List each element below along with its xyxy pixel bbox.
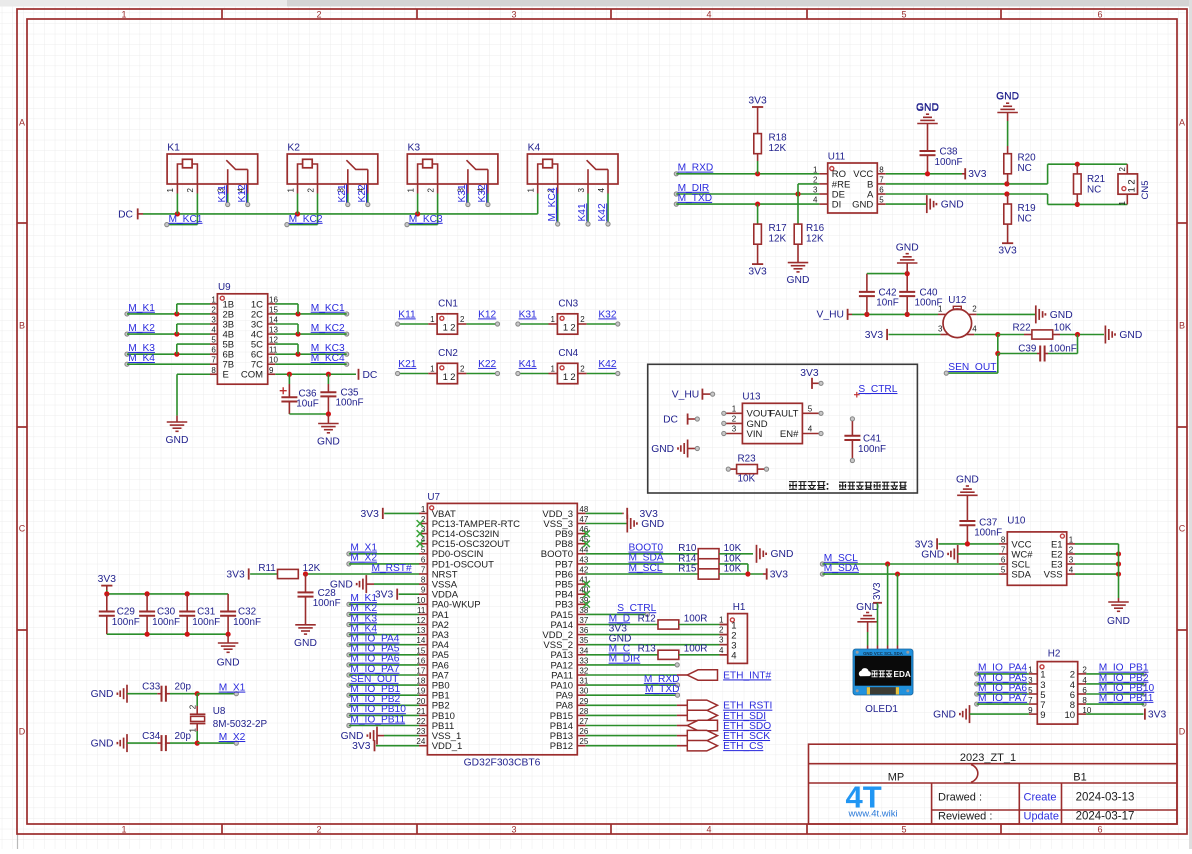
svg-text:GND: GND bbox=[852, 200, 873, 211]
wire net M_K4 to U7 bbox=[347, 623, 419, 636]
svg-text:2: 2 bbox=[426, 188, 435, 193]
svg-text:2: 2 bbox=[189, 704, 198, 709]
wire net K42 bbox=[587, 359, 620, 376]
svg-text:8: 8 bbox=[421, 576, 426, 585]
svg-text:4: 4 bbox=[706, 825, 711, 835]
svg-text:12K: 12K bbox=[769, 143, 787, 154]
svg-text:3V3: 3V3 bbox=[872, 582, 883, 600]
wire net BOOT0 / resistor R10 10K bbox=[586, 543, 794, 563]
wire net M_SDA / resistor R14 10K bbox=[586, 553, 748, 574]
svg-text:20: 20 bbox=[416, 697, 425, 706]
svg-text:CN3: CN3 bbox=[558, 299, 578, 310]
svg-text:1: 1 bbox=[121, 825, 126, 835]
capacitor C29 100nF bbox=[99, 594, 140, 634]
svg-text:K12: K12 bbox=[478, 309, 496, 320]
resistor R23 10K bbox=[726, 453, 768, 484]
svg-text:1: 1 bbox=[406, 188, 415, 193]
svg-text:A: A bbox=[19, 118, 25, 128]
svg-text:1: 1 bbox=[527, 188, 536, 193]
svg-text:1: 1 bbox=[421, 505, 426, 514]
ground flag at U7 VSSA bbox=[330, 575, 419, 593]
svg-text:100nF: 100nF bbox=[233, 617, 261, 628]
wire net M_RXD at U7 bbox=[586, 674, 680, 687]
svg-text:3: 3 bbox=[511, 10, 516, 20]
svg-text:100nF: 100nF bbox=[112, 617, 140, 628]
svg-text:GD32F303CBT6: GD32F303CBT6 bbox=[464, 758, 541, 769]
svg-text:2: 2 bbox=[460, 365, 465, 374]
ground flag at C33 bbox=[91, 685, 127, 703]
svg-text:10K: 10K bbox=[724, 563, 742, 574]
svg-text:8M-5032-2P: 8M-5032-2P bbox=[213, 719, 268, 730]
svg-text:M_SDA: M_SDA bbox=[824, 563, 859, 574]
svg-text:D: D bbox=[19, 727, 26, 737]
capacitor C40 100nF bbox=[899, 276, 942, 314]
connector CN3 bbox=[549, 299, 587, 335]
svg-text:13: 13 bbox=[416, 626, 425, 635]
svg-text:47: 47 bbox=[579, 515, 588, 524]
svg-text:M_IO_PB11: M_IO_PB11 bbox=[1099, 693, 1154, 704]
svg-text:5: 5 bbox=[901, 825, 906, 835]
svg-text:OLED1: OLED1 bbox=[865, 704, 898, 715]
svg-text:R17: R17 bbox=[769, 223, 787, 234]
resistor R11 12K and NRST pull-up bbox=[226, 563, 320, 581]
wire net M_K3 to U9 bbox=[125, 343, 210, 357]
net flag V_HU in U13 box bbox=[672, 389, 715, 401]
svg-text:M_TXD: M_TXD bbox=[678, 193, 713, 204]
canvas right strip bbox=[1189, 0, 1192, 849]
connector H1 bbox=[719, 602, 747, 663]
net flag 3V3 at U7 VBAT bbox=[360, 508, 419, 520]
wire DC trunk bbox=[143, 213, 538, 215]
svg-text:1: 1 bbox=[211, 295, 216, 304]
svg-text:EDA: EDA bbox=[894, 670, 911, 679]
no-connect marks U7 pins 2-4 bbox=[417, 520, 424, 547]
svg-text:10: 10 bbox=[269, 356, 278, 365]
svg-text:7: 7 bbox=[211, 356, 216, 365]
svg-text:www.4t.wiki: www.4t.wiki bbox=[848, 809, 898, 820]
svg-text:5: 5 bbox=[879, 196, 884, 205]
svg-text:M_RST#: M_RST# bbox=[372, 563, 413, 574]
svg-text:Create: Create bbox=[1024, 791, 1057, 803]
svg-text:2: 2 bbox=[1069, 545, 1074, 554]
svg-text:K11: K11 bbox=[398, 309, 416, 320]
svg-text:100nF: 100nF bbox=[335, 398, 363, 409]
svg-text:21: 21 bbox=[416, 707, 425, 716]
svg-text:DC: DC bbox=[363, 370, 378, 381]
svg-text:U12: U12 bbox=[948, 295, 966, 306]
4T logo bbox=[846, 780, 898, 820]
connector CN2 bbox=[428, 348, 466, 384]
port ETH_SCK bbox=[586, 730, 771, 742]
net flag GND in U13 box bbox=[651, 440, 699, 458]
svg-text:M_IO_PA7: M_IO_PA7 bbox=[978, 693, 1027, 704]
wire net M_IO_PA5 to U7 bbox=[347, 644, 419, 657]
svg-text:15: 15 bbox=[416, 646, 425, 655]
svg-text:43: 43 bbox=[579, 555, 588, 564]
svg-text:34: 34 bbox=[579, 646, 588, 655]
svg-text:R20: R20 bbox=[1018, 153, 1037, 164]
svg-text:9: 9 bbox=[421, 586, 426, 595]
connector CN1 bbox=[428, 299, 466, 335]
svg-text:M_K1: M_K1 bbox=[128, 303, 155, 314]
svg-text:H1: H1 bbox=[733, 602, 746, 613]
svg-text:12K: 12K bbox=[806, 234, 824, 245]
svg-text:2: 2 bbox=[306, 188, 315, 193]
wire net M_K1 to U9 bbox=[125, 303, 210, 317]
net label S_CTRL in U13 box bbox=[854, 384, 898, 398]
wire C42 to C40 ground link bbox=[867, 271, 910, 276]
svg-text:CN1: CN1 bbox=[438, 299, 458, 310]
svg-text:U9: U9 bbox=[218, 282, 231, 293]
svg-text:24: 24 bbox=[416, 737, 425, 746]
svg-text:M_KC1: M_KC1 bbox=[311, 303, 345, 314]
svg-text:K3: K3 bbox=[408, 143, 421, 154]
svg-text:VSS: VSS bbox=[1044, 569, 1063, 580]
IC U10 (EEPROM) bbox=[999, 516, 1075, 586]
svg-text:M_KC4: M_KC4 bbox=[311, 353, 345, 364]
svg-text:1: 1 bbox=[550, 365, 555, 374]
svg-text:7: 7 bbox=[879, 175, 884, 184]
wire net M_IO_PA4 to U7 bbox=[347, 634, 419, 647]
svg-text:1: 1 bbox=[732, 404, 737, 413]
relay coil return wires M_KC1..M_KC3 bbox=[165, 194, 443, 227]
wire net M_IO_PA6 to H2 bbox=[975, 683, 1029, 696]
svg-text:1: 1 bbox=[813, 165, 818, 174]
svg-text:1: 1 bbox=[1069, 535, 1074, 544]
svg-text:COM: COM bbox=[241, 370, 263, 381]
svg-text:2023_ZT_1: 2023_ZT_1 bbox=[960, 752, 1016, 764]
wire net M_SCL to U10 bbox=[820, 553, 999, 567]
svg-text:VDD_1: VDD_1 bbox=[432, 741, 463, 752]
svg-text:U7: U7 bbox=[427, 492, 440, 503]
net flag 3V3 at U12 pin3 bbox=[865, 329, 941, 341]
svg-text:100nF: 100nF bbox=[934, 157, 962, 168]
svg-text:100nF: 100nF bbox=[152, 617, 180, 628]
wire net K22 bbox=[466, 359, 499, 376]
svg-text:GND: GND bbox=[787, 275, 810, 286]
svg-text:GND: GND bbox=[166, 435, 189, 446]
svg-text:1: 1 bbox=[1118, 201, 1127, 206]
wire net M_K3 to U7 bbox=[347, 613, 419, 626]
svg-text:33: 33 bbox=[579, 656, 588, 665]
junction dots on DC trunk bbox=[175, 211, 420, 216]
svg-text:29: 29 bbox=[579, 697, 588, 706]
wire net SEN_OUT at U12 bbox=[944, 362, 998, 375]
svg-text:4: 4 bbox=[731, 651, 736, 662]
svg-text:VIN: VIN bbox=[747, 429, 763, 440]
svg-text:5: 5 bbox=[211, 336, 216, 345]
svg-text:NC: NC bbox=[1087, 185, 1101, 196]
relay contact net labels and pads bbox=[217, 184, 610, 226]
svg-text:6: 6 bbox=[1097, 825, 1102, 835]
svg-text:U10: U10 bbox=[1007, 516, 1026, 527]
capacitor C38 100nF bbox=[920, 147, 963, 174]
net flag 3V3 at H2 pin10 bbox=[1086, 709, 1166, 721]
wire U12 pin2 to GND bbox=[977, 305, 1073, 323]
svg-text:3V3: 3V3 bbox=[226, 569, 245, 580]
wire net M_X1 to U7 bbox=[347, 543, 419, 556]
svg-text:8: 8 bbox=[879, 165, 884, 174]
svg-text:9: 9 bbox=[269, 366, 274, 375]
svg-text:32: 32 bbox=[579, 667, 588, 676]
svg-text:K32: K32 bbox=[598, 309, 616, 320]
wire net M_TXD at U7 bbox=[586, 684, 680, 697]
svg-text:M_K4: M_K4 bbox=[128, 353, 155, 364]
svg-text:18: 18 bbox=[416, 677, 425, 686]
svg-text:3: 3 bbox=[1069, 556, 1074, 565]
svg-text:100nF: 100nF bbox=[1049, 343, 1077, 354]
svg-text:5: 5 bbox=[808, 404, 813, 413]
resistor R22 10K bbox=[1013, 323, 1105, 340]
IC U13 (load switch) bbox=[722, 391, 823, 443]
wire net K11 bbox=[396, 309, 429, 326]
net flag DC in U13 box bbox=[663, 414, 699, 426]
svg-text:3V3: 3V3 bbox=[770, 569, 789, 580]
relay K4 coil wires bbox=[538, 187, 560, 226]
svg-text:K1: K1 bbox=[167, 143, 180, 154]
port ETH_SDO bbox=[586, 720, 772, 732]
wire net M_K2 to U9 bbox=[125, 323, 210, 337]
svg-text:3V3: 3V3 bbox=[360, 509, 379, 520]
wire net M_IO_PB1 to U7 bbox=[347, 684, 419, 697]
capacitor C37 100nF bbox=[956, 474, 1002, 544]
svg-text:3V3: 3V3 bbox=[800, 368, 819, 379]
svg-text:3: 3 bbox=[211, 316, 216, 325]
ground flag at U7 VSS_3 bbox=[586, 515, 664, 533]
svg-text:GND: GND bbox=[956, 474, 979, 485]
svg-text:U11: U11 bbox=[828, 152, 846, 163]
wire net M_SCL / resistor R15 10K bbox=[586, 563, 789, 581]
svg-text:R11: R11 bbox=[258, 563, 276, 574]
wire net M_IO_PB2 from H2 bbox=[1086, 673, 1149, 686]
wire net M_TXD to U11 bbox=[674, 193, 819, 207]
svg-text:K12: K12 bbox=[237, 184, 248, 202]
svg-text:20p: 20p bbox=[175, 682, 192, 693]
wire U11 VCC to 3V3 bbox=[886, 168, 987, 180]
svg-text:GND: GND bbox=[317, 437, 340, 448]
wire net M_KC1 from U9 bbox=[275, 303, 349, 317]
net flag DC (relay rail) bbox=[118, 208, 143, 220]
ground flag at U10 WC# bbox=[921, 545, 999, 563]
wire net A (U11 pin6) bbox=[886, 191, 1128, 207]
svg-text:M_RXD: M_RXD bbox=[678, 163, 714, 174]
svg-text:GND: GND bbox=[896, 242, 919, 253]
wire net M_K2 to U7 bbox=[347, 603, 419, 616]
svg-text:R12: R12 bbox=[638, 613, 656, 624]
svg-text:GND: GND bbox=[933, 710, 956, 721]
net flag 3V3 at U7 VDD_1 bbox=[352, 740, 419, 752]
connector H2 bbox=[1028, 649, 1092, 725]
svg-text:1: 1 bbox=[121, 10, 126, 20]
svg-text:100nF: 100nF bbox=[192, 617, 220, 628]
svg-text:K41: K41 bbox=[519, 359, 537, 370]
svg-text:48: 48 bbox=[579, 505, 588, 514]
svg-text:DC: DC bbox=[118, 209, 133, 220]
svg-text:ETH_CS: ETH_CS bbox=[723, 741, 763, 752]
resistor R18 12K bbox=[748, 95, 787, 173]
OLED1 display module bbox=[853, 649, 913, 715]
wire net K32 bbox=[587, 309, 620, 326]
svg-text:FAULT: FAULT bbox=[770, 409, 799, 420]
net flag 3V3 wire to H1 pin2 bbox=[586, 623, 728, 634]
svg-text:DI: DI bbox=[832, 200, 842, 211]
svg-text:MP: MP bbox=[888, 772, 905, 784]
svg-text:14: 14 bbox=[269, 316, 278, 325]
net flag 3V3 at U7 VDDA bbox=[375, 589, 419, 601]
svg-text:A: A bbox=[1179, 118, 1185, 128]
svg-text:CN2: CN2 bbox=[438, 348, 458, 359]
svg-text:GND: GND bbox=[1107, 616, 1130, 627]
title block frame bbox=[809, 744, 1178, 824]
svg-text:2: 2 bbox=[732, 414, 737, 423]
wire 3V3 decoupling top rail bbox=[104, 591, 228, 596]
wire net K21 bbox=[396, 359, 429, 376]
connector CN4 bbox=[549, 348, 587, 384]
no-connect marks U7 right pins bbox=[583, 530, 590, 608]
svg-text:6: 6 bbox=[211, 346, 216, 355]
wire net K31 bbox=[516, 309, 549, 326]
resistor R19 NC bbox=[998, 194, 1036, 257]
svg-text:3: 3 bbox=[813, 186, 818, 195]
svg-text:C33: C33 bbox=[142, 682, 161, 693]
svg-text:NC: NC bbox=[1018, 213, 1032, 224]
ground symbol GND at R22 bbox=[1105, 326, 1142, 344]
svg-text:K42: K42 bbox=[598, 359, 616, 370]
wire net M_C / resistor R13 100R to H1 bbox=[586, 644, 728, 660]
wire net M_K4 to U9 bbox=[125, 353, 210, 366]
ground symbol GND at C28 bbox=[294, 625, 317, 649]
svg-text:Drawed :: Drawed : bbox=[938, 791, 982, 803]
capacitor C35 100nF bbox=[320, 374, 363, 414]
svg-text:3V3: 3V3 bbox=[748, 267, 767, 278]
relay K3 bbox=[406, 143, 498, 194]
svg-text:1: 1 bbox=[719, 616, 724, 625]
svg-text:CN5: CN5 bbox=[1140, 180, 1151, 199]
svg-text:GND: GND bbox=[941, 200, 964, 211]
ground flag at H2 pin9 bbox=[933, 705, 1029, 723]
svg-text:4: 4 bbox=[1069, 566, 1074, 575]
wire U12 pin4 / SEN_OUT node bbox=[974, 332, 1024, 373]
svg-text:V_HU: V_HU bbox=[817, 310, 844, 321]
net flag 3V3 at decoupling rail bbox=[98, 574, 117, 594]
relay K1 bbox=[166, 143, 258, 194]
svg-text:4: 4 bbox=[808, 425, 813, 434]
wire net M_KC4 from U9 bbox=[275, 353, 349, 366]
svg-text:4: 4 bbox=[706, 10, 711, 20]
svg-text:M_SCL: M_SCL bbox=[629, 563, 663, 574]
net flag DC at U9 COM bbox=[359, 369, 378, 381]
svg-text:2: 2 bbox=[719, 626, 724, 635]
svg-text:1 2: 1 2 bbox=[1127, 179, 1138, 192]
svg-text:C: C bbox=[19, 524, 26, 534]
ground flag at C34 bbox=[91, 734, 127, 752]
svg-text:K22: K22 bbox=[357, 184, 368, 202]
svg-text:12: 12 bbox=[269, 336, 278, 345]
svg-text:2: 2 bbox=[570, 323, 575, 334]
svg-text:6: 6 bbox=[1097, 10, 1102, 20]
resistor R20 NC bbox=[996, 91, 1036, 184]
svg-text:R15: R15 bbox=[678, 563, 697, 574]
wire net M_SDA to U10 bbox=[820, 563, 999, 577]
canvas top strip bbox=[0, 0, 287, 7]
wire SCL to OLED bbox=[887, 564, 889, 649]
wire COM rail to DC flag bbox=[275, 372, 356, 377]
svg-text:31: 31 bbox=[579, 677, 588, 686]
svg-text:22: 22 bbox=[416, 717, 425, 726]
crystal U8 8M-5032-2P bbox=[189, 694, 268, 743]
relay K2 bbox=[286, 143, 378, 194]
svg-text:M_IO_PB11: M_IO_PB11 bbox=[350, 714, 405, 725]
relay K4 bbox=[527, 143, 619, 194]
wire net V_HU bbox=[852, 312, 938, 317]
svg-text:K42: K42 bbox=[597, 203, 608, 221]
wire net M_RXD to U11 bbox=[674, 163, 819, 177]
wire net M_D / resistor R12 100R to H1 bbox=[586, 613, 728, 629]
svg-text:K11: K11 bbox=[217, 185, 228, 203]
svg-text:K41: K41 bbox=[577, 203, 588, 221]
port ETH_RSTI bbox=[586, 700, 773, 712]
svg-text:3V3: 3V3 bbox=[352, 741, 371, 752]
svg-text:2: 2 bbox=[450, 323, 455, 334]
svg-text:C34: C34 bbox=[142, 731, 161, 742]
svg-text:1: 1 bbox=[166, 188, 175, 193]
capacitor C41 100nF bbox=[844, 417, 886, 463]
svg-text:9: 9 bbox=[1040, 710, 1045, 721]
svg-text:10K: 10K bbox=[738, 474, 756, 485]
svg-text:GND: GND bbox=[641, 519, 664, 530]
svg-text:GND: GND bbox=[921, 549, 944, 560]
svg-text:4: 4 bbox=[813, 196, 818, 205]
svg-text:12: 12 bbox=[416, 616, 425, 625]
svg-text:100R: 100R bbox=[684, 644, 708, 655]
svg-text:K31: K31 bbox=[519, 309, 537, 320]
ground symbol GND at C32 bbox=[217, 634, 240, 668]
svg-text:GND: GND bbox=[771, 549, 794, 560]
svg-text:35: 35 bbox=[579, 636, 588, 645]
svg-text:11: 11 bbox=[269, 346, 278, 355]
svg-text:15: 15 bbox=[269, 305, 278, 314]
svg-text:NC: NC bbox=[1018, 163, 1032, 174]
svg-text:7: 7 bbox=[421, 566, 426, 575]
IC U11 (RS485 transceiver) bbox=[813, 152, 886, 214]
svg-text:2: 2 bbox=[186, 188, 195, 193]
svg-text:R23: R23 bbox=[738, 453, 757, 464]
wire net S_CTRL at U7 bbox=[586, 603, 657, 616]
svg-text:100R: 100R bbox=[684, 613, 708, 624]
svg-text:3: 3 bbox=[577, 188, 586, 193]
svg-text:2: 2 bbox=[1118, 167, 1127, 172]
svg-text:R21: R21 bbox=[1087, 174, 1106, 185]
wire net M_IO_PB11 from H2 bbox=[1086, 693, 1154, 706]
svg-text:DC: DC bbox=[663, 415, 678, 426]
wire net M_X2 to U7 bbox=[347, 553, 419, 566]
svg-text:1: 1 bbox=[443, 323, 448, 334]
svg-text:2024-03-17: 2024-03-17 bbox=[1076, 810, 1135, 822]
svg-text:2: 2 bbox=[211, 305, 216, 314]
svg-text:23: 23 bbox=[416, 727, 425, 736]
svg-text:28: 28 bbox=[579, 707, 588, 716]
svg-text:GND: GND bbox=[1050, 310, 1073, 321]
ground symbol GND above C42/C40 bbox=[896, 242, 919, 273]
svg-text:13: 13 bbox=[269, 326, 278, 335]
capacitor C28 100nF bbox=[298, 574, 341, 625]
wire net M_KC3 from U9 bbox=[275, 343, 349, 357]
port ETH_SDI bbox=[586, 710, 766, 722]
svg-text:4: 4 bbox=[597, 188, 606, 193]
svg-text:3: 3 bbox=[938, 324, 943, 333]
svg-text:M_KC4: M_KC4 bbox=[547, 187, 558, 221]
svg-text:GND VCC SCL SDA: GND VCC SCL SDA bbox=[863, 651, 903, 656]
